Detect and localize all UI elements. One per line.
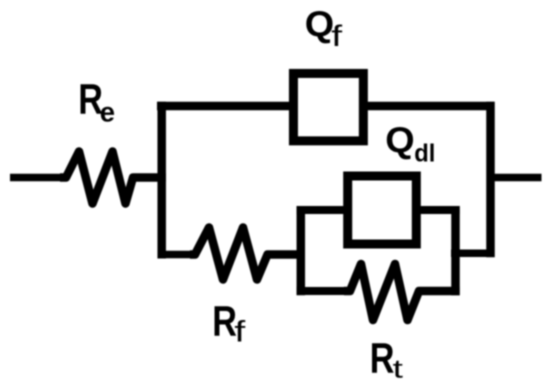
- svg-text:R: R: [370, 335, 395, 382]
- svg-text:Q: Q: [385, 120, 414, 160]
- svg-text:f: f: [234, 316, 245, 349]
- svg-text:Q: Q: [305, 4, 334, 44]
- svg-text:dl: dl: [414, 140, 435, 168]
- svg-text:f: f: [331, 20, 342, 53]
- svg-text:t: t: [393, 354, 403, 383]
- svg-text:e: e: [100, 96, 115, 127]
- svg-text:R: R: [212, 298, 237, 345]
